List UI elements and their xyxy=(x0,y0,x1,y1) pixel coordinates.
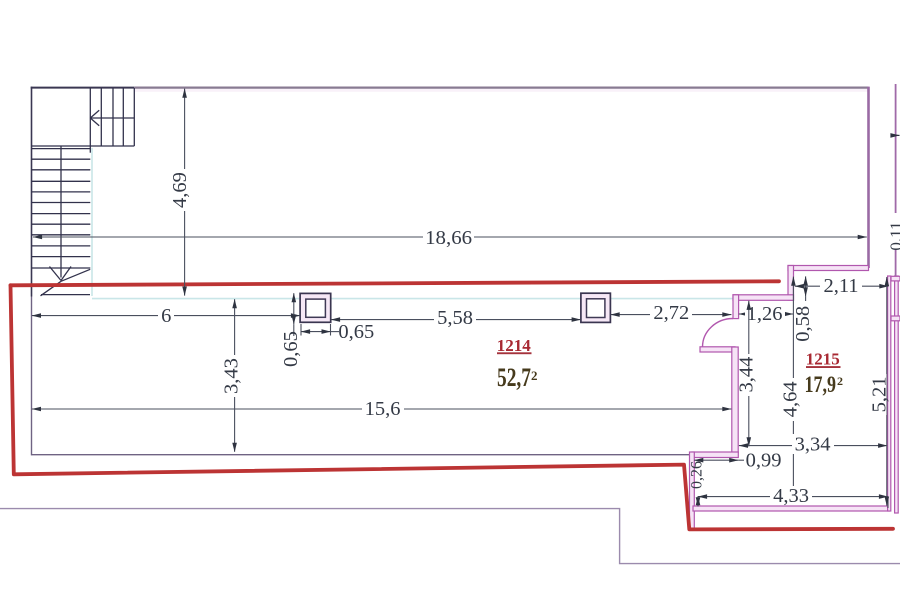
svg-text:1,26: 1,26 xyxy=(747,303,783,325)
svg-text:3,34: 3,34 xyxy=(795,433,831,455)
dimension 0,58 vertical xyxy=(792,276,814,341)
wall bottom room 1215 (pink) xyxy=(693,506,890,511)
svg-text:4,69: 4,69 xyxy=(169,172,191,208)
stair walking line upper xyxy=(90,117,134,119)
dimension 4,69 vertical xyxy=(169,89,191,296)
wall jog horizontal xyxy=(692,452,738,458)
svg-text:0,58: 0,58 xyxy=(792,306,814,342)
wall jog vertical xyxy=(690,452,695,529)
svg-text:5,21: 5,21 xyxy=(868,376,890,412)
wall left room 1214 xyxy=(31,297,33,456)
svg-text:3,44: 3,44 xyxy=(735,357,757,393)
wire top wall dark segment (stair) xyxy=(31,87,135,89)
dimension 3,44 vertical xyxy=(735,301,757,447)
wall step upper horizontal (pink) xyxy=(788,266,869,271)
svg-text:3,43: 3,43 xyxy=(221,358,243,394)
stair walking arrow upper barb 2 xyxy=(90,118,99,126)
pink tint under top wall xyxy=(135,89,868,92)
stair mid walking line lower xyxy=(60,146,62,278)
stair tread below break xyxy=(41,294,90,296)
svg-text:4,33: 4,33 xyxy=(773,485,809,507)
svg-text:0,11: 0,11 xyxy=(886,221,900,250)
wall step vertical (pink) xyxy=(788,266,794,301)
wall bottom room 1214 xyxy=(32,454,693,456)
pillar P1 extension line left xyxy=(300,324,302,336)
dimension 15,6 horizontal xyxy=(32,398,732,420)
wall right room 1215 inner line xyxy=(888,276,891,511)
svg-text:2,11: 2,11 xyxy=(823,275,858,297)
dimension 1,26 horizontal xyxy=(739,303,793,325)
stair break diagonal lower xyxy=(41,281,62,296)
wall left upper (stairs) xyxy=(31,87,33,297)
dimension 3,43 vertical xyxy=(221,299,243,452)
svg-text:15,6: 15,6 xyxy=(365,398,401,420)
dimension 4,33 horizontal xyxy=(698,485,888,508)
wall step lower horizontal (pink) xyxy=(733,295,794,301)
svg-text:17,9: 17,9 xyxy=(805,372,837,397)
stair walking arrow upper barb 1 xyxy=(90,110,99,118)
stair flight right edge xyxy=(133,88,135,146)
pillar P1 inner xyxy=(306,299,326,317)
pillar P1 outer xyxy=(300,293,331,322)
stair walking arrow lower barb 1 xyxy=(50,267,62,281)
svg-text:5,58: 5,58 xyxy=(437,307,473,329)
dimension 6 horizontal xyxy=(32,305,300,327)
svg-text:2: 2 xyxy=(837,374,843,388)
room label 1214 xyxy=(497,336,532,355)
pillar P1 extension line right xyxy=(330,324,332,336)
wall top (magenta) xyxy=(134,86,868,88)
stair lower flight treads xyxy=(32,149,91,268)
stair riser 1 xyxy=(100,88,102,146)
wall right upper room xyxy=(867,87,870,268)
room area 52,7 xyxy=(497,363,538,392)
wall stub right edge upper xyxy=(891,276,900,281)
wall below door (divider 1214/1215) xyxy=(732,347,738,453)
stair break diagonal upper xyxy=(61,269,90,281)
dimension 0,26 vertical xyxy=(688,461,705,506)
svg-text:18,66: 18,66 xyxy=(425,227,472,249)
door leaf xyxy=(700,347,735,352)
red boundary left-bottom polyline xyxy=(11,285,894,529)
stair riser 3 xyxy=(122,88,124,146)
boundary thin purple lower xyxy=(0,509,900,564)
wall door jamb upper (pink) xyxy=(733,295,739,319)
dimension 2,72 horizontal xyxy=(611,302,732,324)
room label 1215 xyxy=(806,349,841,368)
svg-text:1215: 1215 xyxy=(806,349,840,368)
dimension 0,99 horizontal xyxy=(694,449,784,471)
stair flight left edge xyxy=(89,88,91,153)
dimension 0,65 horizontal below pillar P1 xyxy=(301,321,374,343)
red boundary top segment xyxy=(11,281,780,285)
svg-text:0,65: 0,65 xyxy=(280,331,302,367)
svg-text:4,64: 4,64 xyxy=(780,381,802,417)
dimension 0,65 vertical left of pillar P1 xyxy=(280,293,302,367)
wall stub right edge lower xyxy=(891,316,900,321)
stair riser 2 xyxy=(112,88,114,146)
svg-text:52,7: 52,7 xyxy=(497,363,531,392)
dimension 3,34 horizontal xyxy=(739,433,887,455)
pillar P2 inner xyxy=(587,299,605,318)
dimension 5,21 vertical xyxy=(868,277,890,506)
dimension 2,11 horizontal xyxy=(795,275,889,297)
svg-text:0,26: 0,26 xyxy=(688,461,705,489)
cyan line horizontal (room 1214 top edge) xyxy=(92,298,733,300)
svg-text:2,72: 2,72 xyxy=(653,302,689,324)
svg-text:0,65: 0,65 xyxy=(338,321,374,343)
pillar P2 outer xyxy=(581,293,611,322)
wall far right upper strip xyxy=(895,84,897,213)
dimension 4,64 vertical xyxy=(780,277,802,504)
door swing arc xyxy=(703,319,734,348)
dimension 18,66 horizontal xyxy=(33,225,867,249)
room area 17,9 xyxy=(805,372,844,397)
svg-text:0,99: 0,99 xyxy=(746,449,782,471)
wall far right strip lower part xyxy=(895,249,897,276)
stair walking arrow lower barb 2 xyxy=(61,267,71,281)
svg-text:2: 2 xyxy=(531,368,538,383)
svg-text:1214: 1214 xyxy=(497,336,532,355)
wall right corridor line xyxy=(895,276,899,513)
tick right edge xyxy=(892,134,900,136)
dimension 0,11 vertical right edge xyxy=(886,221,900,250)
stair landing bottom edge xyxy=(32,145,135,147)
svg-text:6: 6 xyxy=(161,305,171,327)
dimension 5,58 horizontal xyxy=(331,307,581,329)
cyan line vertical (stair edge) xyxy=(91,148,93,296)
